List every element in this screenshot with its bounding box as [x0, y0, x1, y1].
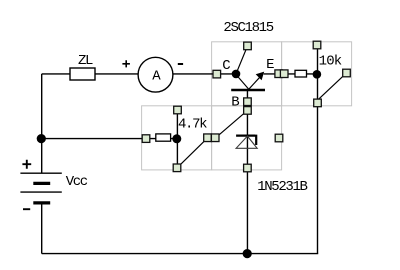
svg-text:B: B [231, 94, 239, 110]
svg-text:E: E [266, 57, 274, 73]
svg-text:10k: 10k [319, 54, 342, 70]
svg-text:2SC1815: 2SC1815 [223, 20, 273, 36]
svg-text:4.7k: 4.7k [178, 117, 207, 133]
svg-text:C: C [222, 58, 230, 74]
svg-text:1N5231B: 1N5231B [257, 179, 307, 195]
svg-text:Vcc: Vcc [66, 174, 88, 190]
svg-text:ZL: ZL [78, 53, 93, 69]
